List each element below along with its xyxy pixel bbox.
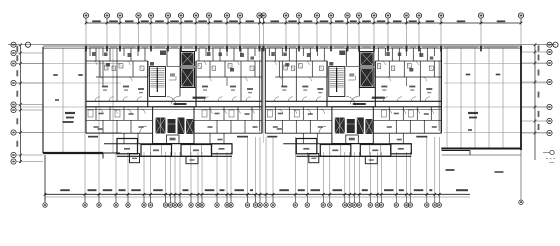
top room fixtures bbox=[271, 52, 275, 56]
window glazing lines top wall bbox=[89, 46, 518, 48]
bottom-left stub line bbox=[44, 155, 46, 202]
bay window lines bbox=[329, 145, 331, 157]
unit party wall left bbox=[85, 48, 87, 133]
room level text right of core bbox=[372, 97, 385, 99]
core shaft 3 bbox=[178, 118, 185, 135]
window sill marks unit ends bbox=[88, 136, 98, 138]
bay B bbox=[320, 145, 351, 157]
left wing bottom jog bbox=[102, 153, 104, 159]
corridor door arcs lower bbox=[99, 109, 103, 113]
top rooms partition walls bbox=[89, 48, 91, 56]
left dimension texts bbox=[16, 46, 18, 147]
top dimension ticks bbox=[85, 22, 523, 25]
lower partition walls row3 bbox=[302, 133, 304, 144]
extension row line bbox=[8, 44, 556, 46]
left wing bottom wall bbox=[43, 152, 103, 154]
corridor top wall bbox=[86, 100, 262, 102]
lower rooms wall y120 bbox=[86, 119, 153, 121]
core top shaft fixture bbox=[160, 51, 166, 56]
bedroom labels bbox=[99, 113, 104, 115]
core wall left bbox=[326, 61, 328, 107]
top dimension texts bbox=[92, 20, 505, 22]
bedroom furniture bbox=[88, 110, 93, 117]
unit party wall right bbox=[440, 48, 442, 133]
corridor door arcs upper bbox=[95, 97, 100, 102]
living room labels bbox=[281, 86, 287, 88]
row grid lines bbox=[16, 64, 548, 133]
elevator shaft upper bbox=[360, 52, 374, 67]
stair landing arc bbox=[167, 97, 176, 106]
elevator shaft lower bbox=[360, 68, 374, 88]
corridor lower line bbox=[86, 108, 262, 110]
right dimension line bbox=[534, 45, 536, 160]
corridor level text bbox=[174, 103, 187, 105]
seam grid pair bbox=[260, 48, 264, 143]
bay A door arc bbox=[140, 126, 147, 133]
core shaft 1 bbox=[156, 118, 166, 134]
bay A door arc bbox=[319, 126, 326, 133]
lower partition walls row2 bbox=[281, 120, 283, 133]
core wall right bbox=[374, 61, 376, 107]
bay C bbox=[360, 145, 391, 157]
lower service core box bbox=[153, 107, 194, 144]
right terrace lines bbox=[442, 150, 471, 152]
lower partition walls row3 bbox=[123, 133, 125, 144]
second band door arcs bbox=[272, 61, 276, 65]
bath fixtures dark bbox=[106, 63, 110, 67]
second band horizontal wall bbox=[96, 76, 148, 78]
left dimension line bbox=[20, 45, 22, 163]
core wall left bbox=[147, 61, 149, 107]
corridor lower line bbox=[265, 108, 441, 110]
right corner bubble bbox=[519, 200, 523, 204]
bay labels bbox=[303, 148, 309, 150]
bottom dimension second line bbox=[45, 196, 470, 198]
bottom dimension line bbox=[45, 193, 470, 195]
bay A protrusion bbox=[309, 154, 319, 163]
bay labels bbox=[124, 148, 130, 150]
right wing garage label bbox=[468, 112, 478, 119]
right top extra bubble bbox=[553, 42, 558, 47]
bottom dimension ticks bbox=[44, 193, 441, 196]
core shaft 2 bbox=[168, 119, 176, 133]
right grid bubbles bbox=[521, 42, 552, 135]
second band partition walls bbox=[278, 61, 280, 77]
second band partition walls bbox=[99, 61, 101, 77]
second band fixtures bbox=[284, 65, 288, 70]
bay row top wall bbox=[104, 143, 232, 145]
column grid lines bbox=[63, 19, 521, 202]
bottom grid bubbles bbox=[43, 194, 442, 207]
left grid bubbles bbox=[11, 42, 43, 164]
core wall right bbox=[195, 61, 197, 107]
right boundary marks bbox=[550, 150, 554, 154]
bedroom furniture bbox=[267, 110, 272, 117]
lower rooms wall y133 bbox=[86, 132, 153, 134]
bay D bbox=[212, 144, 233, 154]
room level text right of core bbox=[193, 97, 206, 99]
bay D bbox=[391, 144, 412, 154]
shaft divider bbox=[181, 87, 197, 89]
stair U1 bbox=[329, 67, 345, 97]
window sill marks unit ends bbox=[267, 136, 277, 138]
top exterior wall bbox=[43, 46, 521, 48]
core top band walls bbox=[166, 48, 168, 66]
UNIT 2 bbox=[265, 48, 441, 164]
shaft divider bbox=[360, 87, 376, 89]
right wing bottom wall bbox=[441, 148, 521, 150]
core shaft 3 bbox=[357, 118, 364, 135]
corridor door arcs lower bbox=[278, 109, 282, 113]
corridor level text bbox=[353, 103, 366, 105]
stair mark bbox=[329, 62, 333, 66]
bay row top wall bbox=[283, 143, 411, 145]
right dimension texts bbox=[538, 45, 540, 130]
lift lobby bbox=[346, 66, 359, 68]
right dimension ticks bbox=[534, 43, 537, 134]
bay row bottom wall bbox=[296, 155, 411, 157]
bay window lines bbox=[150, 145, 152, 157]
bay A protrusion bbox=[130, 154, 140, 163]
core shaft 2 bbox=[347, 119, 355, 133]
left dimension ticks bbox=[19, 43, 22, 162]
bay A bbox=[296, 139, 317, 154]
unit party wall left bbox=[264, 48, 266, 133]
right corner connector bbox=[520, 150, 522, 200]
top rooms horizontal wall bbox=[86, 60, 148, 62]
right terrace dim text bbox=[446, 169, 455, 171]
lower partition walls row2 bbox=[102, 120, 104, 133]
bay C protrusion bbox=[186, 157, 198, 164]
top rooms partition walls bbox=[268, 48, 270, 56]
bay C protrusion bbox=[365, 157, 377, 164]
right wing column marks bbox=[466, 74, 501, 131]
core shaft 1 bbox=[335, 118, 345, 134]
stair U1 bbox=[150, 67, 166, 97]
second band horizontal wall bbox=[275, 76, 327, 78]
left wing garage label bbox=[63, 112, 76, 123]
core shaft 4 bbox=[186, 119, 194, 134]
left top extra bubble bbox=[25, 42, 30, 47]
stair mark bbox=[150, 62, 154, 66]
core top band walls bbox=[345, 48, 347, 66]
lower service core box bbox=[332, 107, 373, 144]
elevator shaft upper bbox=[181, 52, 195, 67]
corridor top wall bbox=[265, 100, 441, 102]
top rooms horizontal wall bbox=[265, 60, 327, 62]
stair landing arc bbox=[346, 97, 355, 106]
living band door arcs bbox=[278, 77, 282, 81]
top dimension line bbox=[86, 22, 521, 24]
bedroom labels bbox=[278, 113, 283, 115]
bay C bbox=[181, 145, 212, 157]
living room labels bbox=[102, 86, 108, 88]
lower core small room bbox=[167, 135, 180, 144]
left wing bottom label bbox=[71, 152, 83, 154]
core shaft 4 bbox=[365, 119, 373, 134]
corridor bottom wall bbox=[265, 106, 441, 108]
UNIT 1 bbox=[86, 48, 262, 164]
bath fixtures dark bbox=[285, 63, 289, 67]
right wing outer wall bbox=[520, 47, 522, 150]
lower core small room bbox=[346, 135, 359, 144]
living partition walls bbox=[116, 77, 118, 101]
core top shaft fixture bbox=[339, 51, 345, 56]
top room fixtures bbox=[92, 52, 96, 56]
left wing column marks bbox=[53, 74, 83, 101]
elevator shaft lower bbox=[181, 68, 195, 88]
living band door arcs bbox=[99, 77, 103, 81]
bay row bottom wall bbox=[117, 155, 232, 157]
lower rooms wall y133 bbox=[265, 132, 332, 134]
second band door arcs bbox=[93, 61, 97, 65]
corridor door arcs upper bbox=[274, 97, 279, 102]
lower rooms wall y120 bbox=[265, 119, 332, 121]
corridor bottom wall bbox=[86, 106, 262, 108]
bay B bbox=[141, 145, 172, 157]
left wing outer wall bbox=[42, 47, 44, 153]
living partition walls bbox=[295, 77, 297, 101]
top wall piers bbox=[85, 46, 522, 49]
bottom dimension texts bbox=[60, 189, 468, 191]
unit party wall right bbox=[261, 48, 263, 133]
lower partition walls row1 bbox=[274, 107, 276, 121]
top grid bubbles bbox=[83, 13, 523, 23]
lift lobby bbox=[167, 66, 180, 68]
lower partition walls row1 bbox=[95, 107, 97, 121]
second band fixtures bbox=[105, 65, 109, 70]
column stubs below top wall bbox=[85, 48, 522, 51]
bay A bbox=[117, 139, 138, 154]
